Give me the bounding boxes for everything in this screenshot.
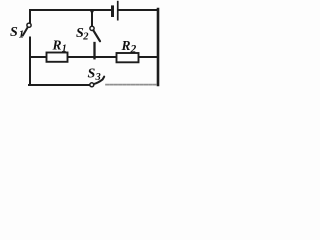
svg-text:2: 2 xyxy=(82,32,89,43)
wire: bottom rail right of S3 (faint) xyxy=(106,84,157,86)
label R2 xyxy=(121,38,137,55)
label S1 xyxy=(10,25,24,41)
wire: left rail lower segment (S1 to bottom-left corner) xyxy=(29,38,31,86)
svg-text:1: 1 xyxy=(19,30,24,41)
wire: S2 branch lower segment to middle rail xyxy=(93,43,95,58)
svg-text:R: R xyxy=(52,38,62,53)
label S3 xyxy=(88,67,101,84)
svg-text:R: R xyxy=(121,38,131,53)
resistor R2 (box) xyxy=(117,53,139,62)
switch S3 (open, on bottom rail) xyxy=(90,77,104,87)
label S2 xyxy=(76,26,89,43)
battery (cell) on top wire xyxy=(111,1,119,21)
label R1 xyxy=(52,38,67,55)
wire: top wire right of battery xyxy=(119,9,158,11)
svg-text:3: 3 xyxy=(95,72,101,83)
wire: middle rail between R1 and R2 xyxy=(68,56,117,58)
svg-text:1: 1 xyxy=(62,44,67,55)
svg-text:S: S xyxy=(88,67,96,82)
wire: middle rail right of R2 xyxy=(139,56,159,58)
wire: top-left corner (left rail upper segment + top wire left of battery) xyxy=(30,10,110,22)
svg-text:S: S xyxy=(10,25,18,40)
wire: bottom rail left of S3 xyxy=(29,84,90,86)
wire: S2 branch upper segment from top wire xyxy=(91,10,93,26)
switch S1 (open, on left rail) xyxy=(23,23,31,35)
switch S2 (open, on branch) xyxy=(90,26,100,41)
resistor R1 (box) xyxy=(47,53,68,62)
junction dot at S2 top connection xyxy=(90,9,93,12)
wire: middle rail left of R1 xyxy=(30,56,47,58)
svg-text:2: 2 xyxy=(130,43,137,55)
wire: right rail xyxy=(157,9,160,85)
